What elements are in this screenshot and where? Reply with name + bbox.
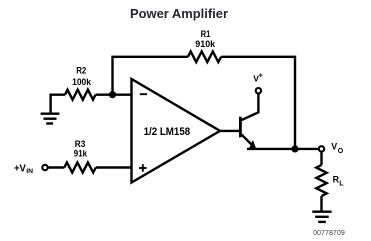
svg-text:L: L	[339, 180, 344, 187]
svg-text:+V: +V	[14, 164, 26, 175]
svg-text:100k: 100k	[72, 77, 91, 88]
svg-text:00778709: 00778709	[313, 230, 345, 237]
svg-text:91k: 91k	[74, 148, 88, 159]
svg-text:910k: 910k	[195, 39, 215, 50]
svg-text:1/2 LM158: 1/2 LM158	[144, 126, 191, 138]
svg-text:Power Amplifier: Power Amplifier	[130, 7, 228, 21]
svg-text:V: V	[331, 141, 337, 151]
svg-text:IN: IN	[26, 168, 33, 175]
svg-text:+: +	[259, 73, 263, 80]
svg-text:R2: R2	[76, 66, 86, 77]
svg-text:O: O	[338, 148, 344, 155]
